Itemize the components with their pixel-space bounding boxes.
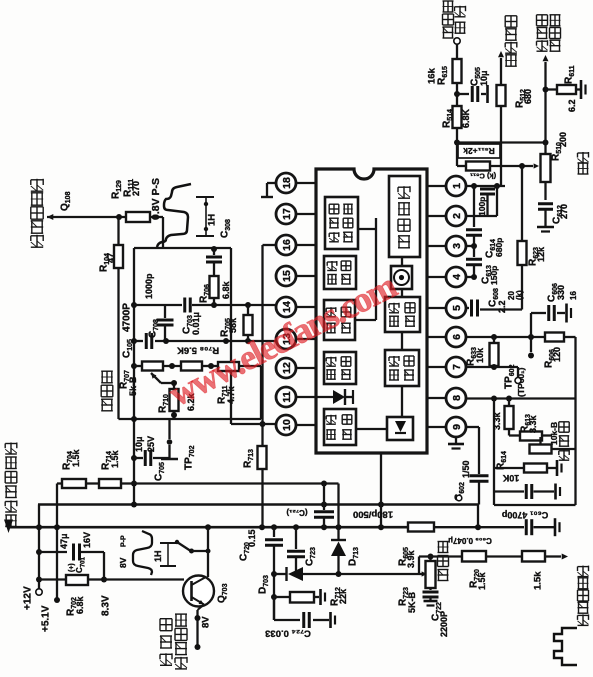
wire R111 right bend down: [150, 217, 163, 248]
label hang nicheng maichong (horiz flyback pulse): [578, 566, 589, 626]
svg-text:8V: 8V: [200, 616, 211, 628]
wire internal: vert sync to output symbol: [401, 386, 403, 417]
label 6.2k: [186, 392, 196, 411]
label Q703: [217, 583, 230, 603]
wire internal: amplifier to sawtooth block: [401, 289, 403, 297]
label jie chang shuchu (to vert output): [505, 16, 517, 66]
wire pin16 stub: [263, 244, 277, 246]
wire box top edge: [134, 247, 231, 249]
wire IC body to pin 8: [427, 397, 446, 399]
waveform flyback pulse: [554, 628, 577, 665]
svg-text:3.9k: 3.9k: [406, 549, 416, 568]
wire bus B y=527.2 left: [9, 526, 409, 529]
label R710: [158, 394, 171, 413]
capacitor C723: [287, 527, 317, 574]
wire box left edge x=494: [493, 399, 495, 506]
svg-text:1H: 1H: [153, 550, 163, 562]
resistor R721 1.5k: [522, 551, 545, 590]
resistor R704 1.5k: [62, 448, 86, 488]
block sync separator (tongbu fenli): [324, 256, 356, 289]
resistor R512 680: [497, 85, 534, 186]
pin 6 circle (IC right): [446, 327, 466, 347]
resistor R615 16k: [426, 59, 461, 143]
label C603 0.047u (upside down): [448, 536, 492, 545]
wire box bottom y=505: [494, 504, 576, 506]
svg-text:1.5k: 1.5k: [532, 571, 543, 590]
wire y=142.5 to R510: [457, 140, 549, 146]
pin 2 circle (IC right): [446, 206, 466, 226]
svg-text:47μ: 47μ: [59, 533, 69, 549]
test point TP602: [504, 364, 521, 389]
wire IC body to pin 4: [427, 276, 446, 278]
pot R707 wiper arrow: [151, 373, 174, 383]
svg-text:C₆₀₉ 0.047μ: C₆₀₉ 0.047μ: [448, 536, 492, 545]
capacitor C613 150p pin3-pin4: [466, 246, 499, 285]
svg-text:1: 1: [451, 183, 463, 189]
wire R512 stub below pin1: [496, 186, 498, 216]
label hang tongbu (horiz sync): [101, 371, 113, 411]
label Q108: [60, 191, 73, 211]
wire internal: horiz driver to output symbol: [356, 428, 387, 430]
pin 15 circle (IC left): [276, 266, 296, 286]
svg-text:22k: 22k: [338, 588, 348, 604]
node junction R104 top: [116, 214, 122, 220]
capacitor C601 4700p: [494, 484, 560, 500]
pin 9 circle (IC right): [446, 417, 466, 437]
wire +12V branch: [23, 505, 43, 611]
svg-text:200: 200: [558, 132, 568, 147]
wire corner up to hang-phase line: [419, 557, 427, 577]
test point TP601: [516, 337, 534, 397]
capacitor C608 2.2u pin5: [466, 288, 524, 317]
svg-text:4: 4: [451, 274, 463, 280]
svg-text:100p: 100p: [477, 197, 487, 216]
block output stage symbol: [387, 417, 413, 440]
capacitor C602 1/50 at pin9: [454, 427, 489, 505]
svg-text:270: 270: [559, 204, 569, 219]
node junction R706 top: [211, 246, 217, 252]
waveform horizontal sync pulse (rotated): [157, 184, 191, 247]
svg-text:6.8k: 6.8k: [75, 595, 85, 614]
diode D713: [331, 484, 360, 575]
svg-text:10μ: 10μ: [134, 436, 144, 452]
svg-text:58k: 58k: [228, 317, 238, 333]
block horizontal oscillator (hang zhendang): [324, 352, 356, 384]
label C721 (upside down): [286, 508, 308, 517]
resistor R613 3.3k: [520, 414, 542, 441]
svg-text:8.3V: 8.3V: [101, 595, 112, 616]
svg-text:(k): (k): [515, 290, 524, 300]
node terminal from vert output: [454, 38, 460, 59]
wire pin 13 to IC body: [296, 338, 316, 340]
wire pin2 net: [466, 215, 497, 217]
wire IC body to pin 6: [427, 336, 446, 338]
svg-text:6.8K: 6.8K: [461, 108, 471, 128]
resistor R111: [126, 212, 150, 222]
wire row y=435.5: [509, 434, 552, 436]
svg-text:25V: 25V: [146, 436, 156, 452]
node junctions on left edge: [131, 302, 137, 487]
wire Q703 collector: [207, 527, 209, 577]
svg-text:1/50: 1/50: [461, 460, 471, 478]
pin 4 circle (IC right): [446, 267, 466, 287]
wire pin1 net: [466, 183, 505, 189]
resistor R611 6.2: [546, 65, 586, 112]
resistor R710 6.2k: [170, 380, 179, 419]
svg-text:180p/500: 180p/500: [353, 509, 393, 520]
svg-text:1.5k: 1.5k: [477, 571, 487, 590]
svg-text:3.3k: 3.3k: [492, 411, 502, 430]
potentiometer R723 5k-B (hang phase): [426, 554, 436, 589]
pin 16 circle (IC left): [276, 235, 296, 255]
wire pin 12 to IC body: [296, 367, 316, 369]
label R708 5.6K (upside down): [177, 345, 219, 356]
wire box bottom edge: [119, 418, 262, 420]
pin 1 circle (IC right): [446, 176, 466, 196]
node junctions pin14 net: [211, 302, 251, 308]
svg-text:0.01μ: 0.01μ: [191, 312, 201, 335]
node junction C721 top: [321, 481, 327, 487]
svg-text:680: 680: [523, 89, 533, 104]
resistor R104: [114, 217, 123, 268]
pin 5 circle (IC right): [446, 298, 466, 318]
label shipin quan dianshi xinhao (composite video input): [160, 614, 187, 669]
diode internal on pin 11 net: [316, 389, 353, 405]
label box R511 2k (upside down): [458, 144, 500, 158]
svg-text:10k: 10k: [475, 347, 485, 363]
svg-text:120: 120: [552, 347, 562, 362]
pin 11 circle (IC left): [276, 387, 296, 407]
svg-text:5K-B: 5K-B: [407, 591, 417, 613]
label 8V at emitter: [200, 616, 211, 628]
label chang tongbu (vert sync): [559, 422, 569, 460]
label jie chang piazhuan xianquan (to yoke): [537, 15, 561, 51]
resistor R614 10K: [494, 451, 562, 483]
svg-text:5k-B: 5k-B: [128, 376, 138, 396]
wire IC body to pin 3: [427, 245, 446, 247]
switch S1: [175, 540, 211, 554]
svg-text:330: 330: [556, 285, 566, 300]
ground at pin 9: [448, 437, 464, 449]
svg-text:10k-B: 10k-B: [549, 422, 559, 445]
svg-text:270: 270: [131, 181, 141, 196]
node arrow to yoke: [543, 55, 549, 154]
pin 14 circle (IC left): [276, 297, 296, 317]
wire pin 17 to IC body: [296, 213, 316, 215]
wire box corner right: [260, 366, 262, 419]
pin 3 circle (IC right): [446, 236, 466, 256]
block vertical sync (chang tongbu): [385, 350, 419, 386]
resistor R720 1.5k: [462, 551, 487, 590]
svg-text:14: 14: [281, 301, 293, 313]
resistor R623 12k: [518, 166, 547, 310]
svg-text:+5.1V: +5.1V: [41, 605, 52, 632]
wire to flyback input arrow: [545, 554, 568, 560]
waveform 8V p-p with 1H bracket: [118, 531, 176, 575]
capacitor elco above R706: [206, 249, 222, 276]
pin 12 circle (IC left): [276, 358, 296, 378]
svg-text:6: 6: [451, 334, 463, 340]
capacitor C721 180p/500: [314, 484, 334, 528]
svg-text:P-P: P-P: [121, 535, 128, 547]
svg-text:R₅₁₁+2k: R₅₁₁+2k: [463, 146, 495, 156]
label 10k-B: [549, 422, 559, 445]
block vertical predriver (chang yu jili): [389, 176, 420, 257]
svg-text:12k: 12k: [536, 246, 546, 262]
wire R104 down to sync box: [117, 268, 119, 419]
capacitor C705 10u 25V: [134, 436, 170, 481]
capacitor C701 47u 16V: [39, 532, 104, 573]
svg-text:0.8V P-S: 0.8V P-S: [150, 178, 162, 220]
wire IC bottom to bus: [380, 453, 382, 527]
label R723 5K-B: [398, 587, 418, 613]
wire hang phase row y=556.5: [419, 555, 462, 557]
svg-text:4700P: 4700P: [122, 303, 133, 332]
svg-text:2200P: 2200P: [439, 611, 449, 637]
wire Q703 emitter down: [195, 610, 201, 650]
capacitor C703 0.01u in series: [182, 298, 202, 336]
resistor R514 6.8K: [442, 106, 472, 128]
wire pin 14 to IC body: [296, 306, 316, 308]
svg-text:11: 11: [281, 391, 293, 402]
label cong chang shuchu chulai (from vert output): [443, 1, 466, 38]
wire pin3 net: [466, 243, 477, 249]
wire R704 R714 row: [57, 482, 134, 484]
wire IC body to pin 2: [427, 215, 446, 217]
node junctions bus A: [131, 502, 384, 508]
resistor R605 3.9k: [398, 523, 434, 569]
resistor R615b 3.3k: [492, 399, 513, 436]
resistor R702 6.8k: [39, 552, 107, 616]
wire diode row y=574: [274, 571, 419, 577]
wire pin 10 to IC body: [296, 424, 316, 426]
label 180p/500 (upside down): [353, 509, 393, 520]
wire y=484 from R714 node: [134, 482, 339, 484]
wire pin 11 to IC body: [296, 396, 316, 398]
label chang fu (v-height): [578, 152, 589, 174]
capacitor C708 1000p: [144, 273, 173, 341]
wire pin14 net y=305: [134, 304, 276, 306]
label 8.3V: [101, 595, 112, 616]
node +5.1V terminal: [41, 597, 60, 632]
node junction R611: [543, 87, 549, 93]
svg-text:10: 10: [281, 419, 293, 431]
capacitor C612 270: [537, 204, 569, 232]
capacitor C603 0.047u on bus: [526, 518, 559, 536]
label C724 0.033 (upside down): [265, 628, 311, 639]
wire pin7 net: [466, 364, 518, 377]
svg-text:1.5k: 1.5k: [110, 449, 120, 468]
svg-text:7: 7: [451, 364, 463, 370]
wire internal: sawtooth to vert sync block: [401, 332, 403, 350]
svg-text:15: 15: [281, 270, 293, 282]
wire pin 18 to IC body: [296, 182, 316, 184]
node junctions pin13 net: [163, 338, 251, 344]
node sync output arrow: [4, 520, 13, 534]
diode D703: [258, 567, 303, 594]
pin 8 circle (IC right): [446, 388, 466, 408]
wire bus A y=504.5: [38, 503, 478, 505]
wire bus B right segment: [434, 526, 524, 528]
node junction bus corner: [475, 505, 481, 531]
capacitor C606 330: [531, 283, 578, 337]
pin 10 circle (IC left): [276, 415, 296, 435]
svg-text:1000p: 1000p: [144, 273, 154, 299]
label hang xiangwei (horiz phase): [438, 542, 449, 581]
wire IC body to pin 7: [427, 366, 446, 368]
block vertical sawtooth oscillator (chang juchi): [385, 297, 420, 332]
svg-text:0.15: 0.15: [247, 529, 257, 547]
svg-text:18: 18: [281, 177, 293, 189]
potentiometer R707 5k-B body: [142, 362, 163, 371]
label 0.8V P-S: [150, 178, 162, 220]
svg-text:C₇₂₄ 0.033: C₇₂₄ 0.033: [265, 628, 311, 639]
capacitor C614 680p pin1-pin3: [466, 186, 504, 258]
svg-text:8: 8: [451, 395, 463, 401]
svg-text:5: 5: [451, 305, 463, 311]
wire box left edge: [133, 248, 135, 505]
resistor R633 10k: [466, 337, 499, 367]
svg-text:6.8k: 6.8k: [221, 280, 231, 299]
wire pin 15 to IC body: [296, 275, 316, 277]
resistor R708 body: [181, 362, 202, 371]
capacitor C722 2200P: [423, 588, 439, 606]
svg-text:12: 12: [281, 362, 293, 374]
block horizontal phase detector (hang jianxiang): [324, 300, 355, 340]
svg-text:680p: 680p: [494, 238, 504, 257]
resistor R711 4.7k: [218, 362, 239, 371]
wire R704 left down: [56, 484, 58, 602]
svg-text:1.5k: 1.5k: [71, 448, 81, 467]
svg-text:8V: 8V: [118, 557, 128, 568]
label R707: [119, 370, 132, 389]
svg-text:16: 16: [281, 239, 293, 251]
test point TP702: [161, 419, 196, 470]
wire pin13 net y=341: [134, 340, 276, 342]
node junctions row y=366: [169, 363, 214, 369]
label jie hang jili ji (to horiz driver stage): [31, 179, 43, 247]
potentiometer R614p 10k-B (chang tongbu): [530, 437, 576, 454]
node junction C505: [454, 91, 460, 97]
wire base feed to Q703: [104, 578, 184, 580]
label R129: [111, 180, 124, 199]
label R111 270: [123, 179, 142, 197]
node junction R514 bottom: [454, 140, 460, 146]
svg-text:10μ: 10μ: [479, 70, 489, 86]
svg-text:6.2: 6.2: [567, 99, 577, 112]
resistor R606 120: [544, 333, 576, 369]
svg-text:C₆₀₁ 4700p: C₆₀₁ 4700p: [501, 510, 548, 520]
pin 18 circle (IC left): [276, 173, 296, 193]
node junctions bus B: [54, 524, 384, 530]
watermark www.elecfans.com: [162, 265, 403, 414]
resistor R712 22k: [274, 587, 348, 606]
wire right bus x=575.5: [574, 337, 576, 505]
resistor R714 1.5k: [99, 449, 121, 488]
label C601 4700p (upside down): [501, 510, 548, 520]
capacitor C511 100p pin1-pin2: [470, 171, 496, 216]
wire resistor row y=366: [134, 365, 261, 367]
transistor Q703: [183, 576, 214, 611]
label C722 2200P: [431, 602, 450, 637]
label 5k-B: [128, 376, 138, 396]
label R104 47: [99, 253, 117, 272]
resistor R705 58k: [220, 305, 253, 341]
wire pin8 net / box top: [466, 396, 576, 402]
svg-text:3: 3: [451, 243, 463, 249]
label R711 4.7k: [217, 385, 237, 404]
block second sync separator (di-er tongbu fenli): [325, 197, 358, 249]
wire pin 16 to IC body: [296, 244, 316, 246]
block horizontal driver (hang ge jili): [324, 409, 356, 445]
svg-text:16: 16: [569, 291, 578, 300]
potentiometer R510 200 (chang fu / v-height): [541, 132, 569, 200]
label C105 4700P: [122, 303, 135, 358]
resistor R713: [243, 245, 267, 527]
svg-text:2.2: 2.2: [497, 300, 507, 313]
wire IC body to pin 5: [427, 307, 446, 309]
resistor R706 6.8k: [199, 276, 232, 305]
pin 13 circle (IC left): [276, 329, 296, 349]
measure bracket 1H with cap C308 label: [196, 197, 232, 238]
wire pin18 left stub with bar: [261, 183, 276, 197]
svg-text:10K: 10K: [502, 473, 519, 483]
svg-text:+12V: +12V: [23, 586, 34, 610]
wire IC body to pin 9: [427, 426, 446, 428]
pin 7 circle (IC right): [446, 357, 466, 377]
svg-text:9: 9: [451, 424, 463, 430]
node arrow to vert output: [498, 51, 504, 85]
capacitor C724 0.033: [274, 597, 335, 628]
pin 17 circle (IC left): [276, 204, 296, 224]
capacitor C505 10u: [457, 67, 492, 103]
svg-text:(C₇₂₁): (C₇₂₁): [286, 508, 308, 517]
IC U1 outline (TA7698 jungle IC) with top notch: [316, 169, 427, 453]
node arrow output to Q108: [47, 214, 126, 220]
wire pin10 net: [231, 423, 276, 425]
svg-text:1H: 1H: [206, 214, 217, 226]
wire internal: 2nd sync sep to vertical predriver: [356, 218, 376, 320]
wire box right edge: [230, 248, 232, 424]
wire internal: predriver to amplifier: [401, 257, 403, 266]
block U1 internal amplifier (circle symbol): [391, 266, 412, 289]
capacitor C720 0.15: [239, 527, 283, 620]
svg-text:16V: 16V: [82, 532, 92, 548]
wire between resistors: [486, 555, 522, 557]
node junctions x=274: [271, 571, 277, 600]
svg-text:3.3k: 3.3k: [528, 414, 538, 433]
wire IC body to pin 1: [427, 185, 446, 187]
node small open terminal: [456, 495, 462, 501]
svg-text:(k) C₅₁₁: (k) C₅₁₁: [470, 171, 496, 180]
capacitor C105 4700P in series: [146, 333, 152, 349]
wire pin4 net: [466, 274, 477, 280]
svg-text:17: 17: [281, 208, 293, 220]
svg-text:150p: 150p: [489, 266, 499, 285]
resistor R511 2k body: [457, 143, 539, 171]
wire pin6 net: [466, 334, 545, 340]
label tongbu maichong shuchu (sync pulse output): [5, 443, 17, 527]
svg-text:2: 2: [451, 213, 463, 219]
